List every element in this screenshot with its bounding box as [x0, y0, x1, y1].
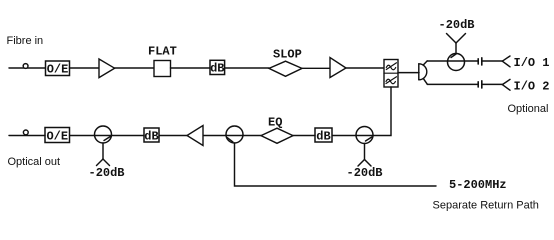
connector fiber output — [23, 130, 28, 135]
svg-text:-20dB: -20dB — [439, 18, 475, 32]
amplifier A2 — [330, 58, 346, 78]
capacitor coupling bottom — [478, 81, 482, 88]
wire amp to dB return left — [159, 135, 187, 137]
directional coupler return right — [356, 127, 373, 144]
svg-text:-20dB: -20dB — [89, 166, 125, 180]
wire coupler to dB return — [332, 135, 356, 137]
equalizer diamond EQ — [261, 128, 293, 143]
wire splitter to coupler top — [427, 60, 447, 62]
diplex filter — [384, 60, 398, 88]
attenuator dB return left — [144, 128, 159, 144]
svg-text:I/O 2: I/O 2 — [514, 80, 550, 94]
wire coupler to E/O — [70, 135, 95, 137]
splitter 2-way — [419, 61, 427, 84]
port arrow I/O 1 — [502, 56, 510, 67]
amplifier return A3 — [187, 126, 203, 146]
attenuator dB forward — [210, 60, 225, 75]
svg-text:dB: dB — [316, 130, 330, 144]
svg-text:Fibre in: Fibre in — [7, 35, 44, 47]
wire junction to amp return — [203, 135, 226, 137]
wire EQ to junction coupler — [243, 135, 261, 137]
O/E converter U1 — [46, 61, 70, 77]
svg-text:Optional: Optional — [508, 103, 549, 115]
slope equalizer diamond — [269, 61, 302, 76]
directional coupler top — [448, 54, 465, 71]
wire FLAT to dB — [171, 67, 211, 69]
attenuator dB return — [315, 128, 332, 144]
svg-text:5-200MHz: 5-200MHz — [449, 178, 507, 192]
wire dB to EQ — [293, 135, 315, 137]
test point -20dB return right — [358, 144, 371, 167]
wire capacitor to port 2 — [482, 83, 503, 85]
test point -20dB top — [447, 34, 466, 54]
wire amp to FLAT pad — [115, 67, 154, 69]
svg-text:I/O 1: I/O 1 — [514, 56, 550, 70]
svg-text:FLAT: FLAT — [148, 45, 177, 59]
directional coupler return left — [95, 126, 112, 143]
wire SLOP to amp — [302, 67, 330, 69]
E/O converter U2 — [45, 128, 70, 144]
svg-text:EQ: EQ — [268, 116, 282, 130]
wire input to O/E — [9, 67, 46, 69]
wire diplexer to splitter — [398, 72, 419, 74]
svg-text:Optical out: Optical out — [8, 156, 61, 168]
capacitor coupling top — [478, 58, 482, 65]
FLAT pad module — [154, 61, 171, 77]
wire diplexer down to return path — [373, 87, 391, 136]
wire dB to SLOP — [225, 67, 269, 69]
svg-text:O/E: O/E — [46, 130, 68, 144]
svg-text:-20dB: -20dB — [347, 166, 383, 180]
svg-text:dB: dB — [210, 62, 224, 76]
wire splitter to capacitor bottom — [427, 83, 477, 85]
svg-text:dB: dB — [144, 130, 158, 144]
wire separate return path — [235, 143, 437, 186]
svg-text:SLOP: SLOP — [273, 48, 302, 62]
test point -20dB return left — [97, 143, 110, 166]
svg-text:O/E: O/E — [47, 63, 69, 77]
amplifier A1 — [99, 59, 115, 78]
wire capacitor to port 1 — [482, 60, 503, 62]
wire O/E to amp — [70, 67, 100, 69]
wire E/O to output — [9, 135, 45, 137]
connector fiber input — [23, 64, 28, 69]
wire coupler to capacitor top — [465, 60, 478, 62]
directional coupler junction — [226, 126, 243, 143]
wire dB to coupler left — [112, 135, 145, 137]
wire amp to diplexer — [346, 67, 384, 69]
svg-text:Separate Return Path: Separate Return Path — [433, 200, 539, 212]
port arrow I/O 2 — [502, 79, 510, 90]
